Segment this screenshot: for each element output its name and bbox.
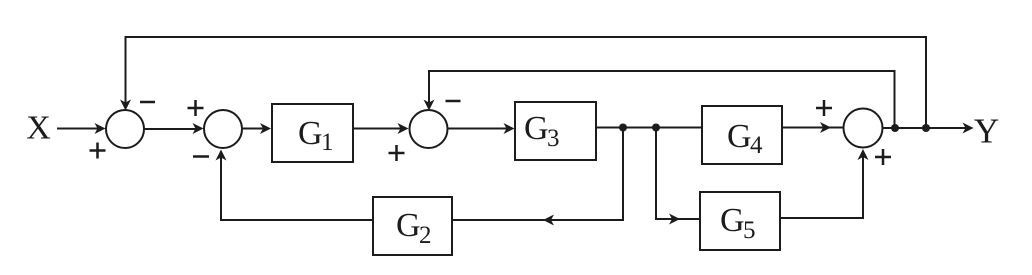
junction node dot D [922,124,930,132]
arrow mid-wire pointing left into G2 [543,215,554,226]
arrow into S3 left [398,123,409,134]
wire inner feedback loop from dot C to S3 top [429,71,895,128]
svg-text:G: G [720,202,745,239]
arrow up into S4 bottom [858,149,869,160]
arrow to Y [963,123,974,134]
block G5 [700,192,780,250]
arrow down into S3 top [424,100,435,111]
plus sign at S3 lower-left [389,145,405,161]
svg-text:4: 4 [750,132,763,159]
block G2 [373,197,452,255]
summing junction S4 [844,109,883,148]
block G3 [515,102,596,160]
plus sign at S4 upper-left [816,100,832,116]
wire S2 to block G1 [242,128,268,130]
svg-text:G: G [727,118,752,155]
junction node dot A [619,124,627,132]
wire from G5 right and up to S4 bottom [780,151,863,218]
wire G3 to block G4 [596,127,702,129]
svg-text:G: G [298,115,323,152]
junction node dot C [891,124,899,132]
block G1 [272,104,353,162]
wire from G2 left and up to S2 bottom [221,152,373,220]
wire G4 to summing junction S4 [782,127,844,129]
wire S1 to summing junction S2 [144,128,200,130]
arrow mid-wire into S4 [820,122,831,133]
summing junction S2 [204,110,242,148]
svg-text:G: G [396,207,421,244]
arrow up into S2 bottom [216,150,227,161]
plus sign at S4 lower-right [875,149,891,165]
minus sign at S3 upper-right [446,100,461,103]
svg-text:X: X [26,110,51,147]
summing junction S1 [106,110,144,148]
block G4 [702,106,782,164]
junction node dot B [652,124,660,132]
arrow mid-wire pointing right into G5 [669,214,680,225]
svg-text:1: 1 [321,129,334,156]
minus sign at S1 upper-right [140,101,155,104]
wire X to summing junction S1 [57,128,102,130]
wire S4 to output Y [883,127,971,129]
wire from dot A down and left into block G2 [453,128,623,221]
arrow into S2 left [193,123,204,134]
svg-text:Y: Y [974,112,999,151]
plus sign at S2 upper-left [188,100,204,116]
wire outer feedback loop from dot D to S1 top [126,37,927,128]
svg-text:3: 3 [547,125,560,152]
plus sign at S1 lower-left [90,143,106,159]
svg-text:5: 5 [743,217,756,244]
arrow into S1 left [95,123,106,134]
wire S3 to block G3 [448,128,512,130]
arrow into G1 [260,123,271,134]
wire from dot B down and right into block G5 [656,128,700,220]
svg-text:G: G [524,110,549,147]
svg-text:2: 2 [419,222,432,249]
summing junction S3 [410,110,448,148]
arrow down into S1 top [120,100,131,111]
wire G1 to summing junction S3 [353,128,405,130]
minus sign at S2 lower-left [193,155,209,158]
arrow into G3 [504,123,515,134]
